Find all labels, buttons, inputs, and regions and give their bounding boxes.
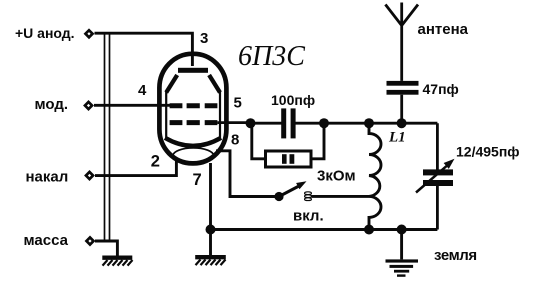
capacitor C2 47пф [387,81,419,95]
svg-text:масса: масса [24,232,69,249]
inductor L1 [369,123,381,229]
svg-text:антена: антена [418,21,469,38]
beam plate right [209,75,220,93]
terminal масса [86,237,93,244]
grid row2 dashes (pin 5) [170,120,218,125]
capacitor C1 100пф [281,108,295,138]
svg-text:накал: накал [26,169,69,186]
svg-text:3: 3 [200,30,208,47]
wire resistor left lead [252,123,264,159]
wire switch to coil tap [312,195,370,198]
antenna [385,3,418,81]
chassis ground at pin 7 [195,232,226,265]
wire right branch [436,123,439,229]
junction dot coil top [364,118,374,128]
svg-text:7: 7 [193,171,202,189]
wire cathode pin8 down to switch [216,151,275,197]
svg-text:5: 5 [234,95,242,112]
beam plate left [166,75,177,93]
svg-text:мод.: мод. [35,96,69,113]
junction dot pin7 bus [206,225,216,235]
node A junction dot [246,118,256,128]
svg-text:L1: L1 [388,130,406,146]
svg-text:8: 8 [231,132,239,149]
switch SA1 вкл. [274,181,311,201]
wire +U анод to pin3 corner [95,33,193,66]
wire накал to pin 2 [95,159,176,176]
svg-text:4: 4 [138,82,147,99]
svg-text:2: 2 [151,153,160,171]
earth ground symbol [386,259,419,276]
wire earth drop [400,230,403,260]
wire мод to grid row1 (pin 4) [94,104,171,107]
heater oval [173,148,214,164]
tube 6П3С envelope [159,54,226,164]
wire масса to chassis ground [95,241,117,256]
terminal накал [86,172,93,179]
variable capacitor C3 12/495пф [416,159,455,193]
svg-text:земля: земля [434,247,477,264]
junction dot antenna [397,118,407,128]
wire grid row2 to node A [218,121,251,124]
junction dot earth [397,225,407,235]
svg-text:100пф: 100пф [271,92,315,108]
wire double feed line left [105,34,110,241]
svg-text:47пф: 47пф [423,81,459,97]
top bus wire [251,122,438,125]
grid row1 dashes (pin 4) [170,103,218,108]
terminal мод [85,102,92,109]
svg-text:12/495пф: 12/495пф [456,144,520,160]
svg-text:3кОм: 3кОм [317,168,356,185]
resistor R1 3кОм [266,151,312,167]
node B junction dot [319,118,329,128]
terminal +U анод [85,30,92,37]
chassis ground at масса [102,258,132,266]
wire resistor right lead [313,123,325,159]
junction dot coil bottom [364,225,374,235]
svg-text:6П3С: 6П3С [238,41,305,72]
svg-text:+U анод.: +U анод. [15,25,75,41]
bottom bus wire [211,228,438,231]
svg-text:вкл.: вкл. [293,208,324,225]
wire pin7 to bottom bus [209,163,212,232]
wire antenna cap to bus [400,95,403,124]
anode plate bar [178,68,208,73]
cathode arc [165,138,221,146]
